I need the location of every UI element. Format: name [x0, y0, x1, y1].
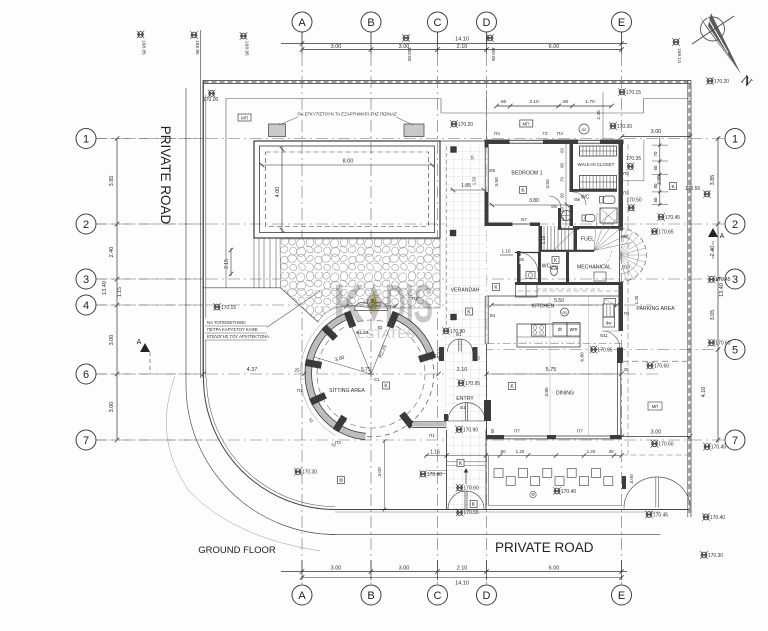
svg-text:Π2: Π2 — [324, 329, 330, 334]
svg-text:170.60: 170.60 — [463, 486, 479, 492]
svg-text:ΠΕΤΡΑ ΚΑΡΥΣΤΟΥ ΚΑΦΕ: ΠΕΤΡΑ ΚΑΡΥΣΤΟΥ ΚΑΦΕ — [207, 327, 258, 332]
svg-text:5: 5 — [732, 344, 738, 356]
svg-text:E: E — [618, 17, 625, 29]
svg-text:Π2: Π2 — [297, 388, 303, 393]
svg-text:7: 7 — [732, 435, 738, 447]
svg-text:4.10: 4.10 — [701, 387, 707, 398]
svg-text:170.60: 170.60 — [654, 363, 670, 369]
svg-text:.60: .60 — [560, 147, 565, 153]
svg-text:.60: .60 — [560, 206, 565, 212]
svg-text:170.15: 170.15 — [221, 305, 237, 311]
svg-text:1.20: 1.20 — [587, 449, 596, 454]
svg-text:170.90: 170.90 — [463, 427, 479, 433]
svg-text:2.10: 2.10 — [457, 566, 468, 572]
svg-text:5.50: 5.50 — [554, 298, 564, 304]
svg-text:Θ8: Θ8 — [518, 257, 524, 262]
svg-text:Θ9: Θ9 — [622, 234, 628, 239]
svg-text:B: B — [671, 184, 674, 189]
svg-text:dw: dw — [606, 321, 613, 326]
svg-text:Π4: Π4 — [494, 131, 500, 136]
svg-text:3.00: 3.00 — [399, 566, 410, 572]
svg-text:168.95: 168.95 — [194, 40, 200, 55]
svg-text:WC: WC — [542, 264, 551, 270]
svg-text:Θ11: Θ11 — [600, 333, 608, 338]
svg-text:PARKING AREA: PARKING AREA — [636, 306, 675, 312]
svg-text:3.00: 3.00 — [377, 467, 383, 477]
svg-text:C: C — [434, 17, 442, 29]
svg-text:6.00: 6.00 — [549, 566, 560, 572]
svg-text:Π7: Π7 — [577, 429, 583, 434]
svg-text:3.50: 3.50 — [494, 177, 500, 187]
svg-text:C: C — [434, 590, 442, 602]
svg-text:82: 82 — [377, 325, 383, 330]
svg-text:2.40: 2.40 — [109, 247, 115, 258]
svg-text:ΝΑ ΤΟΠΟΘΕΤΗΘΕΙ: ΝΑ ΤΟΠΟΘΕΤΗΘΕΙ — [207, 320, 246, 325]
svg-text:170.50: 170.50 — [626, 198, 642, 204]
svg-text:Π6: Π6 — [624, 311, 630, 316]
svg-text:E: E — [618, 590, 625, 602]
svg-text:1.15: 1.15 — [430, 450, 440, 456]
svg-text:4.00: 4.00 — [275, 187, 281, 198]
svg-text:170.45: 170.45 — [665, 215, 681, 221]
svg-text:170.30: 170.30 — [302, 469, 318, 475]
svg-text:MECHANICAL: MECHANICAL — [577, 265, 611, 271]
svg-text:60: 60 — [653, 165, 658, 170]
svg-text:3.80: 3.80 — [529, 198, 539, 204]
svg-text:1.85: 1.85 — [461, 183, 471, 189]
svg-text:170.50: 170.50 — [685, 186, 701, 192]
svg-text:3.00: 3.00 — [651, 430, 662, 436]
svg-text:BEDROOM 1: BEDROOM 1 — [511, 171, 542, 177]
svg-text:169.10: 169.10 — [676, 48, 682, 63]
svg-text:.80: .80 — [560, 192, 565, 198]
svg-text:3.00: 3.00 — [651, 129, 662, 135]
svg-text:Φ: Φ — [339, 478, 343, 484]
svg-text:14.10: 14.10 — [455, 581, 469, 587]
svg-text:168.85: 168.85 — [141, 40, 147, 55]
svg-text:WALK-IN CLOSET: WALK-IN CLOSET — [578, 162, 615, 167]
svg-text:1: 1 — [732, 133, 738, 145]
svg-text:2.45: 2.45 — [596, 110, 602, 120]
svg-text:Π3: Π3 — [438, 356, 444, 361]
svg-text:DINING: DINING — [556, 391, 574, 397]
svg-text:170.55: 170.55 — [463, 510, 479, 516]
svg-text:Θ10: Θ10 — [622, 265, 631, 270]
svg-text:4.37: 4.37 — [247, 367, 258, 373]
svg-text:80: 80 — [653, 183, 658, 188]
svg-text:170.20: 170.20 — [617, 124, 633, 130]
svg-text:170.45: 170.45 — [653, 512, 669, 518]
svg-text:3.50: 3.50 — [545, 179, 551, 189]
svg-text:wm: wm — [570, 327, 578, 333]
svg-text:ENTRY: ENTRY — [456, 396, 474, 402]
svg-text:3.85: 3.85 — [109, 176, 115, 187]
svg-text:170.00: 170.00 — [203, 97, 219, 103]
svg-text:Θ4: Θ4 — [490, 313, 496, 318]
svg-text:170.40: 170.40 — [561, 489, 577, 495]
svg-text:170.80: 170.80 — [450, 329, 466, 335]
svg-text:CL: CL — [374, 377, 380, 383]
svg-text:1: 1 — [83, 133, 89, 145]
svg-text:5.75: 5.75 — [361, 367, 371, 373]
svg-text:.80: .80 — [560, 162, 565, 168]
svg-text:3.85: 3.85 — [710, 175, 716, 186]
svg-text:Θ2: Θ2 — [581, 128, 586, 132]
svg-text:3.05: 3.05 — [710, 310, 716, 321]
svg-text:14.10: 14.10 — [455, 37, 469, 43]
svg-text:170.60: 170.60 — [715, 341, 731, 347]
svg-text:2.10: 2.10 — [529, 99, 539, 105]
svg-text:2: 2 — [83, 219, 89, 231]
svg-text:A: A — [298, 17, 306, 29]
svg-text:3.00: 3.00 — [399, 44, 410, 50]
svg-text:.60: .60 — [562, 99, 569, 105]
svg-text:3: 3 — [732, 274, 738, 286]
svg-text:ΘΑ ΕΓΚΥΤΙΣΤΟΥΝ ΤΑ ΕΞΑΡΤΗΜΑΤΑ Τ: ΘΑ ΕΓΚΥΤΙΣΤΟΥΝ ΤΑ ΕΞΑΡΤΗΜΑΤΑ ΤΗΣ ΠΙΣΙΝΑΣ — [297, 112, 397, 117]
svg-text:168.95: 168.95 — [244, 41, 250, 56]
svg-text:170.45: 170.45 — [715, 277, 731, 283]
svg-text:SITTING AREA: SITTING AREA — [329, 388, 365, 394]
svg-text:13.40: 13.40 — [102, 281, 108, 295]
svg-text:3.85: 3.85 — [544, 387, 550, 397]
svg-text:25: 25 — [294, 368, 300, 373]
svg-text:2: 2 — [732, 219, 738, 231]
svg-text:2.15: 2.15 — [224, 259, 230, 269]
svg-text:Π5: Π5 — [623, 171, 629, 176]
svg-text:4: 4 — [83, 300, 89, 312]
svg-text:90: 90 — [490, 428, 495, 433]
svg-text:1.70: 1.70 — [585, 99, 595, 105]
svg-text:B: B — [367, 17, 374, 29]
svg-text:A: A — [298, 590, 306, 602]
svg-text:PRIVATE ROAD: PRIVATE ROAD — [158, 126, 173, 225]
svg-text:.60: .60 — [500, 99, 507, 105]
svg-text:GROUND FLOOR: GROUND FLOOR — [198, 545, 276, 556]
svg-text:FUEL: FUEL — [581, 237, 594, 243]
svg-text:Π2: Π2 — [412, 296, 418, 301]
svg-text:1.20: 1.20 — [516, 449, 525, 454]
svg-text:A: A — [137, 339, 142, 346]
svg-text:Π1: Π1 — [429, 433, 435, 438]
svg-text:D: D — [483, 17, 491, 29]
svg-text:Φ: Φ — [531, 492, 535, 497]
svg-text:1.10: 1.10 — [541, 235, 546, 244]
svg-text:6.00: 6.00 — [549, 44, 560, 50]
svg-text:2.10: 2.10 — [457, 367, 468, 373]
svg-text:3.00: 3.00 — [109, 402, 115, 413]
svg-text:170.65: 170.65 — [658, 229, 674, 235]
svg-text:Π7: Π7 — [514, 429, 520, 434]
svg-text:KITCHEN: KITCHEN — [532, 304, 555, 310]
svg-text:VERANDAH: VERANDAH — [451, 288, 480, 294]
svg-text:Π1: Π1 — [433, 353, 439, 358]
svg-text:ΜΠ: ΜΠ — [241, 116, 248, 121]
svg-text:5.75: 5.75 — [546, 367, 557, 373]
svg-text:2.10: 2.10 — [457, 44, 468, 50]
svg-text:dr: dr — [558, 327, 563, 333]
svg-text:B: B — [367, 590, 374, 602]
svg-text:8.00: 8.00 — [343, 159, 354, 165]
svg-text:170.40: 170.40 — [427, 472, 443, 478]
svg-text:Π3: Π3 — [474, 356, 480, 361]
svg-text:ΜΠ: ΜΠ — [523, 122, 530, 127]
svg-text:ΕΠΙΛΟΓΗΣ ΤΟΥ ΑΡΧΙΤΕΚΤΟΝΑ: ΕΠΙΛΟΓΗΣ ΤΟΥ ΑΡΧΙΤΕΚΤΟΝΑ — [207, 334, 269, 339]
svg-text:170.95: 170.95 — [465, 381, 481, 387]
svg-text:Θ7: Θ7 — [521, 217, 528, 222]
svg-text:.95: .95 — [470, 154, 475, 160]
svg-text:3.00: 3.00 — [331, 566, 342, 572]
svg-text:.35: .35 — [607, 449, 614, 454]
svg-text:3: 3 — [83, 274, 89, 286]
svg-text:170.15: 170.15 — [626, 90, 642, 96]
svg-text:170.20: 170.20 — [458, 122, 474, 128]
svg-text:170.50: 170.50 — [658, 442, 674, 448]
svg-text:1.10: 1.10 — [502, 249, 511, 254]
svg-text:Θ5: Θ5 — [489, 168, 496, 173]
svg-text:ΜΠ: ΜΠ — [652, 404, 659, 409]
svg-text:170.20: 170.20 — [714, 79, 730, 85]
svg-text:10: 10 — [560, 216, 565, 221]
svg-text:.60: .60 — [499, 449, 506, 454]
svg-text:70: 70 — [653, 151, 658, 156]
svg-text:170.45: 170.45 — [711, 444, 727, 450]
svg-text:6: 6 — [83, 369, 89, 381]
svg-text:Θ6: Θ6 — [574, 197, 581, 202]
svg-text:170.35: 170.35 — [626, 156, 642, 162]
svg-text:170.30: 170.30 — [708, 553, 724, 559]
svg-text:D: D — [483, 590, 491, 602]
svg-text:WC: WC — [581, 195, 590, 201]
svg-text:7.90: 7.90 — [366, 299, 376, 305]
svg-text:60: 60 — [653, 197, 658, 202]
svg-text:3.00: 3.00 — [629, 474, 635, 484]
svg-text:.70: .70 — [560, 176, 565, 182]
svg-text:Π2: Π2 — [335, 440, 341, 445]
svg-text:3.00: 3.00 — [109, 335, 115, 346]
svg-text:⊕1.56: ⊕1.56 — [356, 330, 369, 335]
svg-text:Π4: Π4 — [557, 131, 563, 136]
svg-text:170.95: 170.95 — [597, 347, 613, 353]
svg-text:13.40: 13.40 — [719, 283, 725, 297]
svg-text:170.40: 170.40 — [710, 515, 726, 521]
svg-text:1.35: 1.35 — [634, 295, 639, 304]
svg-text:1.50: 1.50 — [472, 176, 477, 185]
svg-text:6.80: 6.80 — [580, 352, 586, 362]
svg-text:Π5: Π5 — [623, 191, 629, 196]
svg-text:1.15: 1.15 — [117, 287, 123, 297]
svg-text:A: A — [720, 233, 725, 240]
svg-text:3.00: 3.00 — [331, 44, 342, 50]
svg-text:7: 7 — [83, 435, 89, 447]
svg-text:Γ3: Γ3 — [543, 131, 548, 136]
svg-text:Θ3: Θ3 — [562, 311, 567, 315]
svg-text:PRIVATE ROAD: PRIVATE ROAD — [495, 540, 594, 555]
